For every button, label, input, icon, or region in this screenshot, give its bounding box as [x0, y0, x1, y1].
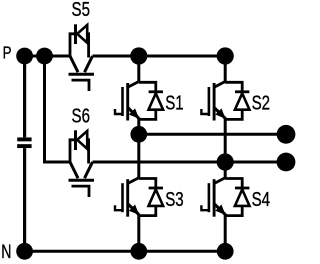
- wire P rail right segment: [93, 55, 226, 58]
- node dot S1 emitter / upper output: [130, 126, 147, 143]
- label S1: [165, 91, 183, 114]
- svg-text:P: P: [3, 44, 12, 63]
- IGBT S5 with series diode: [69, 24, 95, 91]
- svg-text:S1: S1: [165, 91, 183, 114]
- diode D4 (antiparallel to S4): [225, 179, 249, 216]
- wire lower output from S6: [93, 161, 287, 164]
- node dot S1 collector rail: [130, 47, 147, 64]
- label S2: [252, 91, 270, 114]
- svg-text:S3: S3: [165, 188, 183, 211]
- svg-text:S4: S4: [252, 188, 270, 211]
- label S5: [72, 0, 90, 20]
- label S3: [165, 188, 183, 211]
- diode D1 (antiparallel to S1): [139, 82, 163, 119]
- node dot P bus 2: [36, 48, 53, 65]
- wire left DC bus upper: [23, 56, 26, 137]
- node dot S2 collector rail: [217, 47, 234, 64]
- IGBT S3: [115, 134, 139, 251]
- terminal dot lower output: [277, 153, 296, 172]
- node dot S2 emitter / lower output: [217, 153, 234, 170]
- node dot P bus 1: [16, 48, 33, 65]
- label S6: [72, 104, 90, 127]
- label S4: [252, 188, 270, 211]
- capacitor C1: [17, 139, 31, 146]
- node dot N corner: [16, 243, 33, 260]
- node dot S4 emitter rail: [217, 243, 234, 260]
- IGBT S1: [115, 56, 139, 134]
- terminal label N: [1, 241, 11, 263]
- wire S6 feed from P bus: [45, 56, 71, 162]
- IGBT S6 with series diode: [69, 130, 95, 197]
- svg-text:S2: S2: [252, 91, 270, 114]
- diode D3 (antiparallel to S3): [139, 179, 163, 216]
- node dot S3 emitter rail: [130, 243, 147, 260]
- IGBT S4: [201, 134, 225, 251]
- wire P rail left segment: [19, 55, 70, 58]
- terminal dot upper output: [277, 125, 296, 144]
- svg-text:S6: S6: [72, 104, 90, 127]
- terminal label P: [3, 44, 12, 63]
- wire left DC bus lower: [23, 148, 26, 251]
- wire N rail: [25, 250, 226, 253]
- IGBT S2: [201, 56, 225, 134]
- svg-text:S5: S5: [72, 0, 90, 20]
- diode D2 (antiparallel to S2): [225, 82, 249, 119]
- svg-text:N: N: [1, 241, 11, 263]
- wire upper output from S1 emitter: [139, 133, 286, 136]
